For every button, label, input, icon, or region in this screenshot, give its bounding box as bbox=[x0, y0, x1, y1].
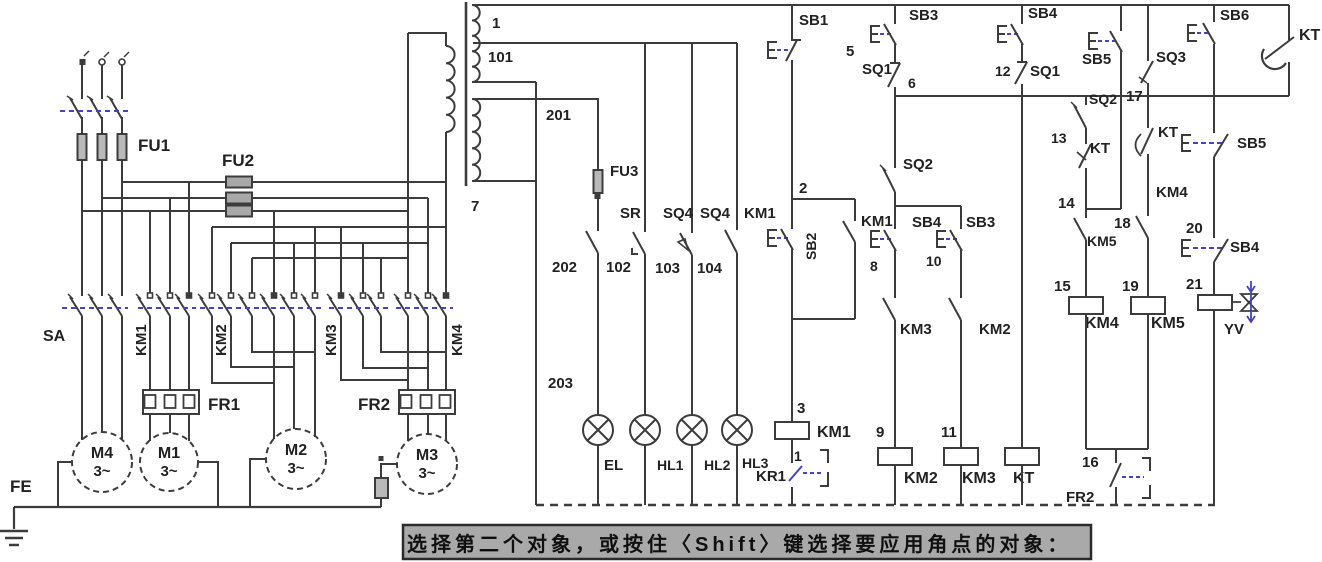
svg-text:SR: SR bbox=[620, 205, 641, 222]
contact SQ1 b bbox=[1015, 62, 1027, 84]
wire phase1 spine to KM pole bbox=[273, 211, 275, 293]
coil KM1 bbox=[775, 422, 809, 439]
svg-text:HL2: HL2 bbox=[704, 457, 731, 473]
contactor KM2 main pole 2 bbox=[229, 293, 234, 298]
contactor KM2R main pole 3 bbox=[313, 293, 318, 298]
wire to node 19 bbox=[1147, 238, 1149, 297]
fuse FU2 element 2 bbox=[226, 193, 252, 204]
status bar bbox=[403, 525, 1091, 559]
coil bottoms join wire bbox=[1086, 448, 1148, 450]
wire KT coil to rail bbox=[1021, 465, 1023, 505]
contactor KM1 linkage bbox=[138, 307, 196, 309]
disconnect switch QS pole 3 bbox=[110, 98, 122, 119]
wire KM3 coil to rail bbox=[960, 465, 962, 505]
svg-text:SB4: SB4 bbox=[1028, 5, 1058, 22]
wire L1 to FU1 bbox=[81, 117, 83, 134]
wire SB1 column top bbox=[791, 5, 793, 40]
transformer core bbox=[465, 2, 468, 186]
wire YV coil to rail bbox=[1213, 310, 1215, 505]
bus phase2 horizontal (middle) bbox=[102, 197, 428, 199]
wire KM2 coil to rail bbox=[894, 465, 896, 505]
wire bus2 to KM1 pole2 bbox=[169, 198, 171, 293]
contact KT delayed closing bbox=[1141, 128, 1153, 154]
svg-text:SQ2: SQ2 bbox=[1089, 91, 1117, 107]
svg-text:KM4: KM4 bbox=[449, 324, 466, 356]
svg-text:11: 11 bbox=[941, 424, 957, 441]
svg-text:选择第二个对象，或按住〈Shift〉键选择要应用角点的对象：: 选择第二个对象，或按住〈Shift〉键选择要应用角点的对象： bbox=[407, 532, 1071, 556]
motor M2 bbox=[266, 429, 326, 489]
svg-text:SB4: SB4 bbox=[1230, 239, 1260, 256]
contact KT delayed (NC) bbox=[1079, 144, 1091, 168]
contactor KM2 linkage bbox=[200, 307, 259, 309]
svg-text:6: 6 bbox=[908, 75, 916, 91]
wire KM1 coil to KR1 bbox=[791, 439, 793, 463]
coil KM4 bbox=[1069, 297, 1103, 314]
3-phase supply terminal L3 bbox=[119, 59, 125, 65]
wire L1 below FU1 to SA bbox=[81, 160, 83, 296]
wire bus1 to KM1 pole3 bbox=[188, 182, 190, 293]
wire SQ1 to node6 bbox=[894, 87, 896, 96]
svg-text:SA: SA bbox=[43, 328, 66, 345]
wire phase L1 drop bbox=[81, 65, 83, 99]
wire SB3b branch bbox=[960, 206, 962, 229]
node 1 top rail bbox=[473, 4, 1289, 6]
node 7 vertical wire bbox=[535, 82, 537, 505]
wire SB6 down bbox=[1213, 44, 1215, 133]
wire SB4 to SQ1b bbox=[1021, 44, 1023, 62]
transformer primary winding bbox=[446, 46, 455, 132]
wire phase L2 drop bbox=[101, 65, 103, 99]
wire FR1 to M1 bbox=[150, 414, 189, 441]
svg-text:17: 17 bbox=[1126, 88, 1143, 105]
contact KM4 aux bbox=[1136, 216, 1148, 238]
pushbutton SB3 second contact bbox=[937, 231, 946, 247]
disconnect switch QS pole 2 bbox=[90, 98, 102, 119]
wire KM3 pole2 jog bbox=[363, 316, 428, 368]
contact SQ2 b bbox=[1074, 105, 1086, 128]
contact KM1 aux (self-hold) bbox=[843, 221, 855, 242]
svg-text:SB4: SB4 bbox=[912, 214, 942, 231]
svg-text:KM1: KM1 bbox=[133, 324, 150, 356]
node 201 wire bbox=[473, 99, 598, 170]
pushbutton SB5 second contact bbox=[1182, 135, 1191, 151]
wire SQ3 to node 17 bbox=[1147, 83, 1149, 96]
coil KM2 bbox=[878, 448, 912, 465]
wire to node 3 bbox=[791, 319, 793, 422]
wire HL3 branch bbox=[736, 43, 738, 415]
bus phase1 horizontal (bottom) bbox=[82, 210, 408, 212]
wire HL2 to bottom rail bbox=[691, 445, 693, 505]
ground symbol PE bbox=[13, 507, 15, 529]
node loop bottom wire bbox=[792, 318, 855, 320]
wire M3 frame via fuse bbox=[381, 464, 397, 507]
svg-text:KM3: KM3 bbox=[900, 321, 932, 338]
bottom control rail (dashed) bbox=[536, 504, 1215, 506]
wire SB5 column top bbox=[1120, 5, 1122, 31]
contact KM5 aux bbox=[1074, 218, 1086, 240]
contactor KM3 linkage bbox=[329, 307, 388, 309]
pushbutton SB4 second contact bbox=[1182, 240, 1191, 256]
wire L2 to FU1 bbox=[101, 117, 103, 134]
svg-text:SQ3: SQ3 bbox=[1156, 49, 1186, 66]
svg-text:20: 20 bbox=[1186, 220, 1203, 237]
wire node6 to SQ2 bbox=[894, 96, 896, 168]
wire SQ2 to split bbox=[894, 192, 896, 206]
contactor KM1 main pole 2 bbox=[168, 293, 173, 298]
wire SB6 column top bbox=[1213, 5, 1215, 22]
svg-text:3~: 3~ bbox=[287, 460, 304, 477]
svg-text:SQ4: SQ4 bbox=[700, 205, 731, 222]
switch SQ4a bbox=[680, 233, 692, 255]
pushbutton SB4 main (NO) bbox=[998, 26, 1007, 42]
pushbutton SB5 (NO) bbox=[1089, 33, 1098, 49]
svg-text:9: 9 bbox=[876, 424, 884, 441]
svg-text:KM2: KM2 bbox=[904, 470, 938, 487]
contactor KM2 main pole 1 bbox=[210, 293, 215, 298]
svg-text:102: 102 bbox=[606, 259, 631, 276]
lamp HL2 bbox=[677, 415, 707, 445]
contact KR1 thermal bbox=[789, 466, 802, 481]
wire HL1 to bottom rail bbox=[644, 445, 646, 505]
svg-text:101: 101 bbox=[488, 49, 513, 66]
disconnect switch linkage bbox=[60, 110, 128, 112]
terminal dot M3 frame bbox=[379, 456, 384, 461]
svg-text:SQ1: SQ1 bbox=[862, 61, 892, 78]
wire to node 18 bbox=[1147, 154, 1149, 216]
contactor KM1 main pole 1 bbox=[148, 293, 153, 298]
bus phase3 horizontal (top) bbox=[122, 181, 446, 183]
wire phase L3 drop bbox=[121, 65, 123, 99]
svg-text:SB6: SB6 bbox=[1220, 7, 1249, 24]
svg-text:M2: M2 bbox=[285, 442, 307, 459]
svg-text:SB2: SB2 bbox=[803, 233, 819, 260]
svg-text:5: 5 bbox=[846, 43, 854, 60]
switch SR bbox=[633, 232, 645, 254]
fuse FU1 element 3 bbox=[118, 134, 127, 160]
svg-text:1: 1 bbox=[794, 448, 802, 464]
wire SB2 branch lower bbox=[791, 249, 793, 319]
svg-text:203: 203 bbox=[548, 375, 573, 392]
svg-text:202: 202 bbox=[552, 259, 577, 276]
wire FR2 to M3 bbox=[408, 414, 446, 441]
svg-text:201: 201 bbox=[546, 107, 571, 124]
wire EL to bottom rail bbox=[597, 445, 599, 505]
wire HL1 branch bbox=[644, 43, 646, 415]
disconnect switch QS pole 1 bbox=[70, 98, 82, 119]
svg-text:YV: YV bbox=[1224, 321, 1244, 338]
switch SA pole 1 bbox=[70, 297, 82, 316]
transformer secondary winding 1 bbox=[472, 5, 480, 82]
pushbutton SB6 (NO) bbox=[1188, 25, 1197, 41]
wire KM3 pole3 jog bbox=[381, 316, 446, 352]
svg-text:KT: KT bbox=[1299, 27, 1321, 44]
wire EL branch bbox=[597, 193, 599, 415]
PE bus wire bbox=[14, 506, 381, 508]
svg-text:SB5: SB5 bbox=[1082, 51, 1111, 68]
contactor KM1 main pole 3 bbox=[187, 293, 192, 298]
fuse in M3 frame drop bbox=[375, 478, 388, 498]
svg-text:SQ4: SQ4 bbox=[663, 205, 694, 222]
pushbutton SB2 (NO) bbox=[768, 230, 777, 246]
svg-text:10: 10 bbox=[926, 253, 942, 269]
contactor KM3 main pole 2 bbox=[361, 293, 366, 298]
wire SB1 to node 2 bbox=[791, 60, 793, 199]
contactor KM2R linkage bbox=[262, 307, 322, 309]
contact KT delayed (top right) bbox=[1265, 37, 1294, 59]
contactor KM2R main pole 2 bbox=[292, 293, 297, 298]
lamp HL1 bbox=[630, 415, 660, 445]
wire KR1 to bottom rail bbox=[791, 487, 793, 505]
wire FR2 contact to rail bbox=[1115, 487, 1117, 505]
wire rail to SQ2b bbox=[1085, 96, 1087, 105]
svg-text:SB1: SB1 bbox=[799, 12, 828, 29]
terminal dot below FU3 bbox=[595, 193, 601, 199]
solenoid YV valve symbol bbox=[1232, 294, 1257, 311]
svg-text:12: 12 bbox=[995, 63, 1011, 79]
svg-text:SQ1: SQ1 bbox=[1030, 63, 1060, 80]
wire KM5 coil down bbox=[1147, 314, 1149, 449]
wire to node 21 bbox=[1213, 262, 1215, 295]
svg-text:3~: 3~ bbox=[418, 465, 435, 482]
pushbutton SB3 (NO) bbox=[871, 26, 880, 42]
wire bus2 end drop bbox=[427, 198, 429, 293]
wire to node 9 bbox=[894, 320, 896, 448]
wire M2 frame to PE bus bbox=[250, 459, 266, 507]
svg-text:3~: 3~ bbox=[160, 463, 177, 480]
contactor KM4 main pole 2 bbox=[426, 293, 431, 298]
wire to node 15 bbox=[1085, 240, 1087, 297]
switch SA pole 2 bbox=[90, 297, 102, 316]
wire M4 frame to PE bus bbox=[58, 462, 72, 507]
wire to node 11 bbox=[960, 320, 962, 448]
svg-text:104: 104 bbox=[697, 260, 723, 277]
motor M3 bbox=[397, 434, 457, 494]
coil KT bbox=[1005, 448, 1039, 465]
coil KM5 bbox=[1131, 297, 1165, 314]
wire node17 to KT arc contact bbox=[1147, 96, 1149, 128]
wire branch busB y243 bbox=[231, 243, 428, 293]
wire SB4 branch bbox=[894, 206, 896, 229]
svg-text:EL: EL bbox=[604, 457, 623, 474]
wire KM1 aux branch lower bbox=[854, 242, 856, 319]
wire SB3 to SQ1 bbox=[894, 44, 896, 63]
svg-text:M4: M4 bbox=[91, 445, 113, 462]
svg-text:15: 15 bbox=[1054, 278, 1071, 295]
svg-text:3~: 3~ bbox=[93, 463, 110, 480]
3-phase supply terminal L2 bbox=[99, 59, 105, 65]
wire SB4 column top bbox=[1021, 5, 1023, 24]
wire KM4 outputs to FR2 bbox=[408, 316, 446, 390]
svg-text:21: 21 bbox=[1186, 276, 1203, 293]
svg-text:KM1: KM1 bbox=[817, 424, 851, 441]
coil KM3 bbox=[944, 448, 978, 465]
wire bus3 to KM1 pole1 bbox=[149, 211, 151, 293]
svg-text:M1: M1 bbox=[158, 445, 180, 462]
wire winding2 bottom to node 7 bbox=[473, 180, 536, 182]
wire branch busA y227 bbox=[212, 227, 446, 293]
wire HL2 branch bbox=[691, 43, 693, 415]
node 101 rail bbox=[473, 42, 737, 44]
pushbutton SB4 (NO) bbox=[871, 231, 880, 247]
motor M4 bbox=[72, 432, 132, 492]
contactor KM4 linkage bbox=[396, 307, 453, 309]
wire L3 to FU1 bbox=[121, 117, 123, 134]
wire KM2 pole1 jog bbox=[212, 316, 274, 383]
contactor KM4 main pole 1 bbox=[406, 293, 411, 298]
wire SB5 down to bridge bbox=[1120, 51, 1122, 209]
svg-text:FR2: FR2 bbox=[1066, 489, 1094, 506]
contactor KM2 main pole 3 bbox=[250, 293, 255, 298]
switch SB lamp branch EL bbox=[586, 231, 598, 253]
wire KM1 aux branch upper bbox=[854, 199, 856, 221]
contact KM3 aux bbox=[883, 298, 895, 320]
svg-text:KR1: KR1 bbox=[756, 468, 786, 485]
svg-text:KM4: KM4 bbox=[1156, 184, 1188, 201]
wire KM1 poles to FR1 bbox=[150, 316, 189, 390]
wire SQ3 column from top rail bbox=[1147, 5, 1149, 61]
svg-text:KM3: KM3 bbox=[323, 324, 340, 356]
wire M1 frame to PE bus bbox=[198, 462, 218, 507]
wire KT contact to node14 bbox=[1085, 168, 1087, 218]
wire primary bottom / bus3-end drop bbox=[445, 133, 447, 293]
wire SQ1b to KT coil bbox=[1021, 84, 1023, 448]
svg-text:SB3: SB3 bbox=[909, 7, 938, 24]
transformer secondary winding 2 bbox=[472, 99, 480, 181]
svg-text:FU3: FU3 bbox=[610, 163, 638, 180]
wire top rail to KT delayed bbox=[1288, 5, 1290, 40]
svg-text:HL1: HL1 bbox=[657, 457, 684, 473]
wire join to FR2 contact bbox=[1115, 449, 1117, 463]
svg-text:13: 13 bbox=[1051, 130, 1067, 146]
wire L3 below FU1 to SA bbox=[121, 160, 123, 296]
svg-text:KM1: KM1 bbox=[861, 213, 893, 230]
wire to node 20 bbox=[1213, 157, 1215, 238]
switch SA linkage bbox=[62, 307, 128, 309]
svg-text:KT: KT bbox=[1013, 470, 1035, 487]
svg-text:14: 14 bbox=[1058, 195, 1075, 212]
wire KM4 coil down bbox=[1085, 314, 1087, 449]
coil YV solenoid bbox=[1198, 295, 1232, 310]
svg-text:FR2: FR2 bbox=[358, 395, 390, 414]
svg-text:FE: FE bbox=[10, 477, 32, 496]
node 6/17 rail bbox=[895, 95, 1289, 97]
svg-text:KM2: KM2 bbox=[979, 321, 1011, 338]
wire SA poles to M4 bbox=[82, 316, 122, 440]
fuse FU1 element 1 bbox=[78, 134, 87, 160]
wire SB3 column top bbox=[894, 5, 896, 24]
fuse FU2 element 3 bbox=[226, 206, 252, 217]
motor M1 bbox=[140, 433, 198, 491]
wire branch busC y258 bbox=[252, 258, 408, 293]
wire KT delayed to rail17 bbox=[1288, 62, 1290, 96]
contactor KM3 main pole 3 bbox=[379, 293, 384, 298]
svg-text:KM2: KM2 bbox=[213, 324, 230, 356]
svg-text:SB5: SB5 bbox=[1237, 135, 1266, 152]
svg-text:1: 1 bbox=[492, 15, 500, 32]
svg-text:KT: KT bbox=[1158, 124, 1178, 141]
svg-text:7: 7 bbox=[471, 198, 479, 215]
wire KM2 pole3 jog bbox=[252, 316, 315, 352]
svg-text:KM5: KM5 bbox=[1087, 233, 1117, 249]
thermal relay FR1 bbox=[143, 390, 199, 414]
svg-text:16: 16 bbox=[1082, 454, 1099, 471]
wire KM2R outputs to M2 bbox=[274, 316, 315, 439]
wire L2 below FU1 to SA bbox=[101, 160, 103, 296]
pushbutton SB1 (NC) bbox=[768, 42, 777, 58]
wire KM2 pole2 jog bbox=[231, 316, 294, 367]
svg-text:103: 103 bbox=[655, 260, 680, 277]
fuse FU1 element 2 bbox=[98, 134, 107, 160]
wire winding1 bottom to node 7 bbox=[473, 81, 536, 83]
switch SA pole 3 bbox=[110, 297, 122, 316]
bridge wire node14 bbox=[1086, 208, 1121, 210]
contact SQ2 a bbox=[883, 168, 895, 192]
switch SQ4b bbox=[725, 230, 737, 253]
svg-text:KM1: KM1 bbox=[744, 205, 776, 222]
svg-text:SQ2: SQ2 bbox=[903, 156, 933, 173]
svg-text:3: 3 bbox=[797, 400, 805, 417]
svg-text:SB3: SB3 bbox=[966, 214, 995, 231]
wire HL3 to bottom rail bbox=[736, 445, 738, 505]
contact SQ3 bbox=[1141, 61, 1153, 83]
svg-text:FR1: FR1 bbox=[208, 395, 240, 414]
wire node8 bbox=[894, 250, 896, 298]
svg-text:FU2: FU2 bbox=[222, 151, 254, 170]
svg-text:KM4: KM4 bbox=[1085, 315, 1119, 332]
wire transformer-primary top feed bbox=[407, 33, 409, 293]
wire node13 bbox=[1085, 128, 1087, 144]
lamp HL3 bbox=[722, 415, 752, 445]
contact SQ1 a bbox=[888, 63, 900, 87]
thermal relay FR2 bbox=[399, 390, 455, 414]
svg-text:8: 8 bbox=[870, 258, 878, 274]
3-phase supply terminal L1 bbox=[80, 59, 86, 65]
contact FR2 (control) bbox=[1110, 463, 1121, 487]
wire KM3 pole1 jog bbox=[341, 316, 408, 380]
svg-text:19: 19 bbox=[1122, 278, 1139, 295]
contact KM2 aux bbox=[949, 298, 961, 320]
split wire node bbox=[895, 205, 961, 207]
svg-text:FU1: FU1 bbox=[138, 136, 170, 155]
wire node10 bbox=[960, 250, 962, 298]
contactor KM2R main pole 1 bbox=[272, 293, 277, 298]
contactor KM3 main pole 1 bbox=[339, 293, 344, 298]
svg-text:M3: M3 bbox=[416, 447, 438, 464]
svg-text:18: 18 bbox=[1114, 215, 1131, 232]
svg-text:KM5: KM5 bbox=[1151, 315, 1185, 332]
lamp EL bbox=[583, 415, 613, 445]
contactor KM4 main pole 3 bbox=[444, 293, 449, 298]
fuse FU2 element 1 bbox=[226, 177, 252, 188]
svg-text:KM3: KM3 bbox=[962, 470, 996, 487]
svg-text:KT: KT bbox=[1090, 140, 1110, 157]
wire SB2 branch upper bbox=[791, 199, 793, 229]
node 2 split wire bbox=[792, 198, 855, 200]
fuse FU3 bbox=[594, 170, 603, 193]
svg-text:2: 2 bbox=[799, 180, 807, 197]
